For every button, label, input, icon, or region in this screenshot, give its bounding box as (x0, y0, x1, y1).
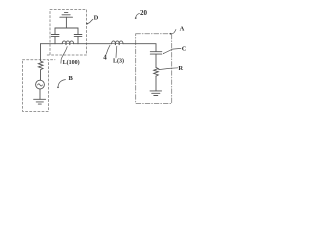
inverted earth symbol above capacitors (60, 12, 73, 28)
ground (box B) (34, 99, 46, 104)
svg-text:20: 20 (140, 9, 148, 17)
leader for L(100) (61, 47, 67, 64)
leader for D (86, 19, 93, 24)
wire to source (40, 70, 42, 81)
wire: main rail middle segment (74, 43, 112, 45)
ground (box A) (150, 91, 162, 96)
resistor (in box B) (38, 61, 43, 70)
AC source circle (36, 80, 45, 89)
wire: branch down to source B (40, 44, 42, 61)
wire: main rail left segment (41, 43, 63, 45)
svg-text:L(3): L(3) (113, 58, 124, 65)
dashed box B (23, 60, 49, 112)
leader for 4 (106, 45, 110, 54)
leader for R (158, 68, 178, 70)
wire to ground A (155, 76, 157, 91)
inductor L(100) (62, 41, 73, 45)
dash at left end of box D bottom edge (47, 54, 49, 56)
svg-text:C: C (182, 45, 187, 52)
svg-text:R: R (178, 65, 183, 72)
capacitor C-left (in box D) (51, 28, 59, 44)
top rail of capacitor pair (55, 27, 78, 29)
inductor L(3) (112, 41, 123, 45)
svg-text:B: B (69, 75, 74, 82)
dash-dot box A (136, 34, 172, 104)
leader for A (170, 30, 176, 35)
svg-text:L(100): L(100) (63, 59, 80, 66)
stem wire (65, 17, 67, 28)
dash segment between box B and L(100) label (51, 59, 56, 61)
svg-text:D: D (94, 15, 99, 22)
svg-text:A: A (180, 26, 185, 33)
capacitor C (in box A) (150, 52, 162, 68)
capacitor C-right (in box D) (74, 28, 82, 44)
leader for B (57, 80, 65, 89)
dashed box D (50, 10, 87, 56)
resistor R (in box A) (154, 68, 159, 77)
wire below source (39, 89, 41, 99)
leader for 20 (135, 14, 140, 19)
wire: main rail right segment (123, 44, 156, 52)
svg-text:4: 4 (103, 54, 107, 62)
leader for L(3) (115, 46, 118, 57)
leader for C (163, 48, 181, 54)
